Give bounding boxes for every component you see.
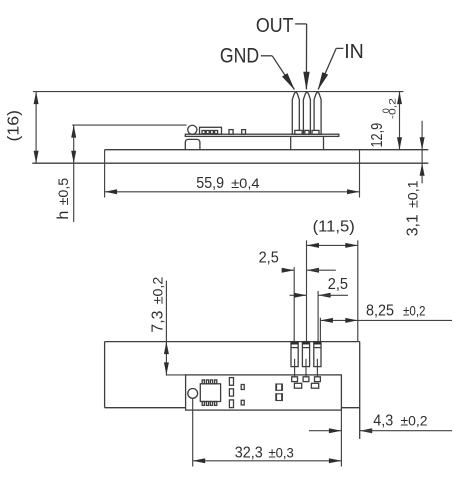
crystal can under PCB — [185, 139, 200, 149]
component column B — [241, 385, 244, 390]
extension line pin3 right edge (for 8,25) — [319, 318, 321, 342]
svg-text:h: h — [55, 211, 72, 220]
extension line holder right edge (for 11,5 / 8,25) — [357, 240, 359, 341]
pin OUT (middle, side view) — [303, 92, 310, 134]
svg-text:12,9: 12,9 — [369, 123, 386, 148]
capacitor pair middle — [276, 384, 283, 390]
svg-text:±0,1: ±0,1 — [404, 180, 420, 208]
pad 1 — [292, 377, 298, 382]
connector box U2 on PCB — [200, 127, 222, 134]
extension line pin1 center — [293, 267, 295, 341]
svg-text:2,5: 2,5 — [328, 276, 348, 293]
svg-text:±0,2: ±0,2 — [403, 303, 426, 319]
svg-text:3,1: 3,1 — [404, 214, 421, 236]
dimension 4,3 ±0,2 — [309, 430, 341, 432]
svg-text:IN: IN — [344, 41, 364, 63]
svg-text:±0,5: ±0,5 — [55, 178, 71, 206]
PCB strip (bottom view) — [166, 374, 186, 376]
pin GND (left, side view) — [292, 92, 299, 134]
component column A — [229, 378, 233, 386]
dimension 8,25 ±0,2 — [320, 319, 452, 321]
dimension 55,9 ±0,4 — [105, 191, 360, 193]
svg-text:±0,2: ±0,2 — [150, 276, 166, 304]
svg-text:±0,3: ±0,3 — [269, 445, 294, 461]
wire: pin-top extension line L1 — [33, 91, 404, 93]
svg-text:(11,5): (11,5) — [313, 218, 355, 235]
extension line pin2 center — [306, 240, 308, 341]
svg-text:2,5: 2,5 — [259, 250, 279, 267]
pin base 3 — [312, 130, 319, 134]
svg-text:8,25: 8,25 — [366, 303, 394, 320]
pad 2 — [303, 377, 309, 382]
pin IN (right, side view) — [314, 92, 321, 134]
connector block below PCB — [290, 136, 292, 149]
pin base 2 — [305, 130, 309, 134]
svg-text:-0,2: -0,2 — [388, 98, 398, 119]
dimension (11,5) — [307, 244, 358, 246]
IC U1 pins bottom — [202, 402, 204, 406]
svg-text:GND: GND — [220, 45, 259, 68]
dimension 7,3 ±0,2 — [165, 281, 167, 376]
dimension 2,5 (pins 2-3) — [290, 294, 307, 296]
dimension 32,3 ±0,3 — [193, 460, 342, 462]
module body bottom baseline extended both sides — [32, 162, 428, 164]
offset pad A — [294, 383, 301, 388]
svg-text:(16): (16) — [5, 110, 22, 142]
svg-text:OUT: OUT — [256, 15, 294, 37]
svg-text:±0,4: ±0,4 — [231, 175, 260, 191]
pad 3 — [315, 377, 321, 382]
module body rectangle (side view) top edge extended right — [105, 149, 429, 151]
PCB board bar (side view) — [185, 134, 338, 136]
svg-text:±0,2: ±0,2 — [401, 413, 428, 429]
dimension 12,9 0/-0,2 — [399, 92, 401, 150]
dimension (16) — [35, 92, 37, 164]
wire: component-top extension line L2 — [72, 124, 186, 126]
PCB strip right edge extended down (extension for 32,3) — [340, 410, 342, 466]
IC U1 body — [200, 384, 220, 402]
pin 1 (bottom view) — [291, 342, 298, 367]
dimension 2,5 (pins 1-2) — [282, 269, 295, 271]
svg-text:55,9: 55,9 — [196, 175, 224, 192]
svg-text:4,3: 4,3 — [373, 413, 393, 430]
dimension 3,1 ±0,1 — [421, 121, 423, 184]
IC U1 pins top — [202, 380, 204, 384]
extension line pin3 center — [317, 291, 319, 342]
offset pad B — [311, 383, 318, 388]
module body left edge extended down (extension for 55,9) — [104, 150, 106, 198]
hole center extension line (for 32,3) — [192, 398, 194, 466]
pin 2 (bottom view) — [302, 342, 309, 367]
pin 3 (bottom view) — [314, 342, 321, 367]
mounting hole — [188, 389, 198, 399]
holder outer rectangle — [105, 341, 360, 343]
small component on PCB — [242, 130, 246, 135]
pin base 1 — [295, 130, 302, 134]
leader OUT — [295, 23, 307, 25]
svg-text:32,3: 32,3 — [235, 445, 263, 462]
small component on PCB — [229, 130, 233, 135]
leader GND — [261, 55, 272, 57]
module body right edge extended down (extension for 55,9) — [359, 150, 361, 198]
round component C1 on PCB — [188, 125, 197, 134]
leader IN — [336, 47, 343, 49]
holder right edge extended down (extension for 4,3) — [359, 342, 361, 439]
svg-text:7,3: 7,3 — [150, 311, 167, 333]
dimension h ±0,5 — [73, 125, 75, 222]
